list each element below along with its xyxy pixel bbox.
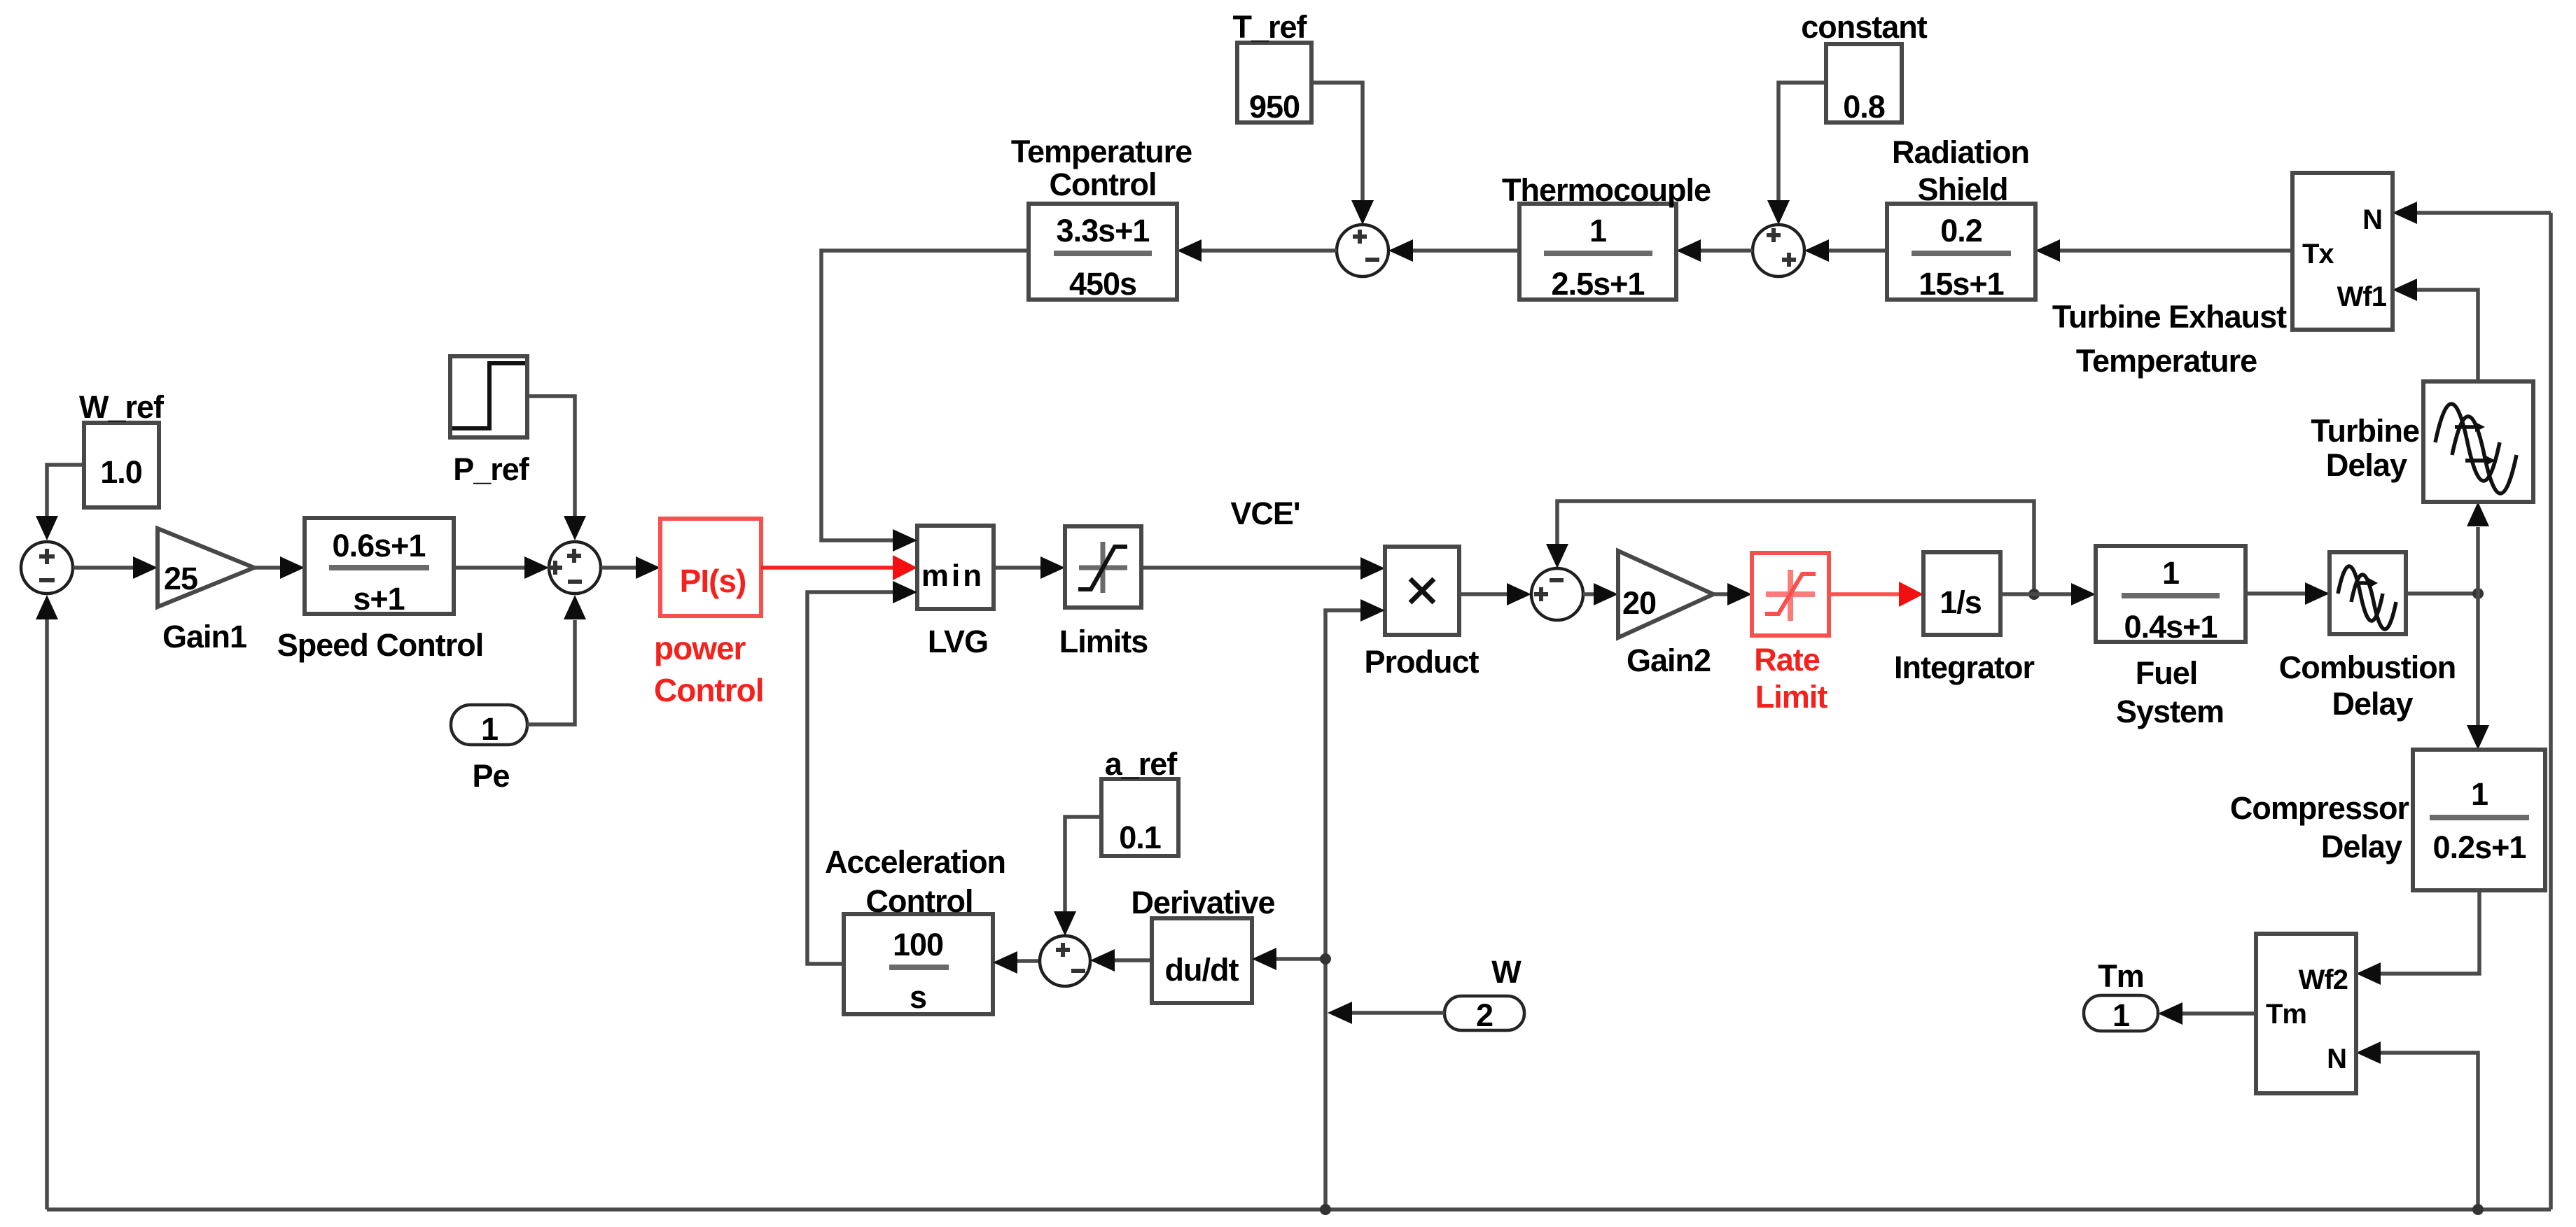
outport Tm — [2084, 995, 2158, 1033]
label Radiation Shield — [1892, 134, 2029, 207]
wire junction up to Turbine Delay — [2467, 502, 2489, 594]
svg-text:1: 1 — [2112, 997, 2129, 1033]
svg-text:System: System — [2116, 694, 2224, 729]
svg-text:Tm: Tm — [2098, 958, 2144, 994]
gain Gain2 — [1618, 551, 1713, 638]
svg-text:2.5s+1: 2.5s+1 — [1552, 266, 1645, 302]
wire right bus to Tx N input — [2393, 202, 2551, 224]
svg-text:Control: Control — [1050, 167, 1157, 202]
wire Temperature Control to LVG top input — [821, 251, 1029, 552]
svg-text:0.4s+1: 0.4s+1 — [2124, 609, 2218, 645]
wire Thermocouple to Sum4 — [1388, 239, 1519, 262]
label Turbine Delay — [2311, 413, 2419, 483]
svg-text:2: 2 — [1476, 997, 1493, 1033]
wire Sum3 to Gain2 — [1583, 583, 1618, 605]
svg-text:Turbine: Turbine — [2311, 413, 2419, 449]
wire W riser to Product lower input — [1325, 599, 1385, 1210]
svg-text:constant: constant — [1801, 9, 1928, 45]
svg-text:15s+1: 15s+1 — [1919, 266, 2003, 302]
svg-text:1: 1 — [1589, 213, 1606, 248]
svg-text:Tm: Tm — [2266, 999, 2306, 1030]
constant block a_ref 0.1 — [1101, 779, 1178, 856]
label Integrator — [1894, 650, 2035, 685]
label LVG — [928, 624, 988, 659]
label Acceleration Control — [825, 844, 1005, 919]
wire bus riser to Tm N input — [2356, 1042, 2484, 1215]
wire Speed Control to Sum2 — [454, 556, 549, 579]
sum junction Sum1 — [21, 542, 73, 594]
svg-text:Temperature: Temperature — [2076, 343, 2257, 379]
svg-text:Product: Product — [1364, 644, 1479, 680]
transfer block Temperature Control — [1029, 204, 1177, 302]
wire Sum6 to Acceleration Control — [993, 951, 1040, 974]
label Pe — [472, 758, 509, 794]
label T_ref — [1232, 9, 1307, 45]
sum junction Sum2 — [548, 542, 601, 594]
svg-text:0.1: 0.1 — [1119, 820, 1161, 855]
svg-text:Fuel: Fuel — [2136, 655, 2198, 691]
wire Integrator to Fuel System — [2000, 583, 2096, 605]
svg-text:Delay: Delay — [2321, 829, 2402, 864]
transfer block Speed Control — [305, 518, 454, 617]
svg-text:du/dt: du/dt — [1165, 952, 1239, 988]
gain Gain1 — [158, 528, 254, 607]
wire Turbine Delay to Tx Wf1 input — [2393, 279, 2478, 381]
wire T_ref to Sum4 — [1311, 83, 1374, 225]
svg-text:Turbine Exhaust: Turbine Exhaust — [2052, 299, 2287, 335]
svg-text:Shield: Shield — [1917, 171, 2007, 207]
svg-text:1: 1 — [481, 711, 498, 747]
svg-text:20: 20 — [1622, 585, 1656, 621]
label VCE' — [1230, 496, 1300, 531]
wire constant to Sum5 — [1767, 83, 1826, 225]
svg-text:Radiation: Radiation — [1892, 134, 2029, 170]
label Thermocouple — [1502, 172, 1711, 208]
svg-text:3.3s+1: 3.3s+1 — [1057, 213, 1150, 248]
label power Control — [654, 630, 764, 708]
svg-text:Gain2: Gain2 — [1627, 643, 1711, 678]
wire du/dt to Sum6 — [1090, 949, 1152, 972]
wire Fuel System to Combustion Delay — [2246, 582, 2330, 605]
wire left feedback riser into Sum1 — [36, 595, 58, 1210]
svg-text:a_ref: a_ref — [1105, 746, 1178, 782]
svg-text:25: 25 — [164, 561, 197, 596]
wire bottom feedback bus N — [47, 1207, 2551, 1212]
wire right feedback riser to Tx N input — [2549, 213, 2553, 1210]
wire power Control to LVG (red) — [761, 555, 917, 580]
svg-text:LVG: LVG — [928, 624, 988, 659]
svg-text:Limits: Limits — [1059, 624, 1148, 659]
svg-text:Compressor: Compressor — [2230, 790, 2409, 826]
label W_ref — [79, 389, 165, 425]
svg-text:Delay: Delay — [2332, 686, 2413, 722]
rate limiter block Rate Limit — [1752, 553, 1829, 636]
svg-text:Speed Control: Speed Control — [277, 627, 484, 663]
wire Combustion Delay to junction — [2406, 588, 2484, 599]
label Product — [1364, 644, 1479, 680]
label Rate Limit — [1754, 642, 1827, 715]
label Gain2 — [1627, 643, 1711, 678]
svg-text:950: 950 — [1249, 89, 1300, 125]
svg-text:Rate: Rate — [1754, 642, 1820, 678]
label Speed Control — [277, 627, 484, 663]
label Tm — [2098, 958, 2144, 994]
svg-text:Limit: Limit — [1755, 679, 1828, 715]
label W — [1491, 954, 1522, 990]
transfer block Acceleration Control — [844, 914, 993, 1015]
svg-text:0.2: 0.2 — [1940, 213, 1982, 248]
svg-text:Acceleration: Acceleration — [825, 844, 1005, 880]
label Combustion Delay — [2279, 650, 2456, 722]
svg-text:Derivative: Derivative — [1131, 885, 1274, 920]
svg-text:W_ref: W_ref — [79, 389, 165, 425]
svg-text:N: N — [2327, 1044, 2346, 1074]
svg-text:Thermocouple: Thermocouple — [1502, 172, 1711, 208]
svg-text:Integrator: Integrator — [1894, 650, 2035, 685]
wire Radiation Shield to Sum5 — [1804, 239, 1887, 262]
transfer block Radiation Shield — [1887, 204, 2035, 302]
svg-text:Gain1: Gain1 — [162, 619, 246, 654]
svg-text:100: 100 — [893, 927, 943, 962]
wire W inport to riser — [1328, 1002, 1444, 1024]
wire Pe to Sum2 — [527, 595, 586, 724]
label Limits — [1059, 624, 1148, 659]
svg-text:0.6s+1: 0.6s+1 — [333, 528, 426, 563]
transport delay block Combustion Delay — [2330, 552, 2406, 634]
wire Tm block to Tm outport — [2158, 1002, 2256, 1025]
svg-text:min: min — [921, 559, 984, 593]
transfer block Fuel System — [2096, 546, 2246, 645]
svg-text:s: s — [910, 979, 926, 1015]
sum junction Sum6 — [1040, 936, 1090, 986]
derivative block du/dt — [1152, 918, 1252, 1003]
step source block P_ref — [450, 356, 527, 437]
label constant — [1801, 9, 1928, 45]
svg-text:1: 1 — [2162, 555, 2179, 591]
junction dot integrator output — [2028, 589, 2040, 600]
label Gain1 — [162, 619, 246, 654]
svg-text:W: W — [1491, 954, 1522, 990]
wire Sum2 to power Control — [601, 556, 660, 579]
svg-text:Combustion: Combustion — [2279, 650, 2456, 685]
wire Sum1 to Gain1 — [73, 556, 158, 579]
wire Limits to Product (VCE') — [1141, 557, 1385, 580]
wire W_ref to Sum1 — [36, 465, 84, 540]
wire Tx output to Radiation Shield — [2035, 239, 2292, 262]
label Compressor Delay — [2230, 790, 2409, 864]
svg-text:0.8: 0.8 — [1843, 89, 1885, 125]
svg-text:1/s: 1/s — [1940, 584, 1982, 620]
svg-text:Control: Control — [654, 672, 764, 708]
sum junction Sum3 — [1531, 568, 1583, 620]
svg-text:P_ref: P_ref — [453, 451, 530, 487]
source block W_ref — [84, 423, 159, 507]
wire Compressor Delay to Tm Wf2 input — [2356, 890, 2479, 985]
transfer block Compressor Delay — [2413, 750, 2545, 890]
wire LVG to Limits — [994, 556, 1065, 579]
sum junction Sum5 — [1753, 225, 1804, 276]
wire Product to Sum3 — [1459, 583, 1531, 605]
transport delay block Turbine Delay — [2423, 381, 2533, 502]
subsystem block Tm — [2256, 934, 2356, 1093]
constant block 0.8 — [1826, 44, 1902, 125]
label Turbine Exhaust Temperature — [2052, 299, 2287, 379]
svg-text:0.2s+1: 0.2s+1 — [2433, 829, 2526, 865]
wire Acceleration Control to LVG bottom input — [807, 581, 917, 964]
label Derivative — [1131, 885, 1274, 920]
label Fuel System — [2116, 655, 2224, 729]
product block Product — [1385, 547, 1459, 635]
wire a_ref to Sum6 — [1054, 817, 1101, 936]
transfer block Thermocouple — [1519, 204, 1676, 302]
svg-text:T_ref: T_ref — [1232, 9, 1307, 45]
wire Gain1 to Speed Control — [254, 556, 305, 579]
integrator block Integrator — [1923, 552, 2000, 635]
min block LVG — [917, 526, 994, 609]
label Temperature Control — [1011, 134, 1192, 202]
svg-text:Control: Control — [866, 883, 973, 919]
label P_ref — [453, 451, 530, 487]
label a_ref — [1105, 746, 1178, 782]
subsystem block Tx (Turbine Exhaust Temperature) — [2292, 173, 2393, 330]
wire Sum5 to Thermocouple — [1676, 239, 1753, 262]
wire P_ref to Sum2 — [527, 396, 586, 540]
svg-text:Tx: Tx — [2302, 239, 2334, 269]
constant block T_ref 950 — [1237, 43, 1311, 125]
wire feedback Integrator output to Sum3 — [1546, 501, 2034, 594]
wire junction down to Compressor Delay — [2467, 594, 2489, 750]
wire Rate Limit to Integrator (red) — [1829, 582, 1923, 607]
svg-text:power: power — [654, 630, 746, 666]
wire Gain2 to Rate Limit — [1713, 583, 1752, 605]
svg-text:Wf2: Wf2 — [2299, 965, 2348, 995]
svg-text:s+1: s+1 — [353, 581, 404, 617]
inport W — [1444, 996, 1524, 1033]
sum junction Sum4 — [1337, 225, 1388, 276]
svg-text:PI(s): PI(s) — [680, 563, 746, 599]
svg-text:1.0: 1.0 — [100, 454, 142, 490]
PI controller block power Control — [660, 519, 761, 616]
saturation block Limits — [1065, 526, 1141, 608]
svg-text:450s: 450s — [1069, 266, 1136, 302]
svg-text:Temperature: Temperature — [1011, 134, 1192, 169]
svg-text:N: N — [2362, 204, 2382, 235]
svg-text:VCE': VCE' — [1230, 496, 1300, 531]
inport Pe — [451, 705, 527, 747]
svg-text:Pe: Pe — [472, 758, 509, 794]
wire Sum4 to Temperature Control — [1177, 239, 1337, 262]
junction dot riser-bus — [1320, 1204, 1331, 1215]
svg-text:Wf1: Wf1 — [2337, 281, 2387, 312]
svg-text:Delay: Delay — [2326, 447, 2407, 483]
wire W riser to du/dt — [1252, 948, 1331, 970]
svg-text:1: 1 — [2471, 776, 2488, 812]
